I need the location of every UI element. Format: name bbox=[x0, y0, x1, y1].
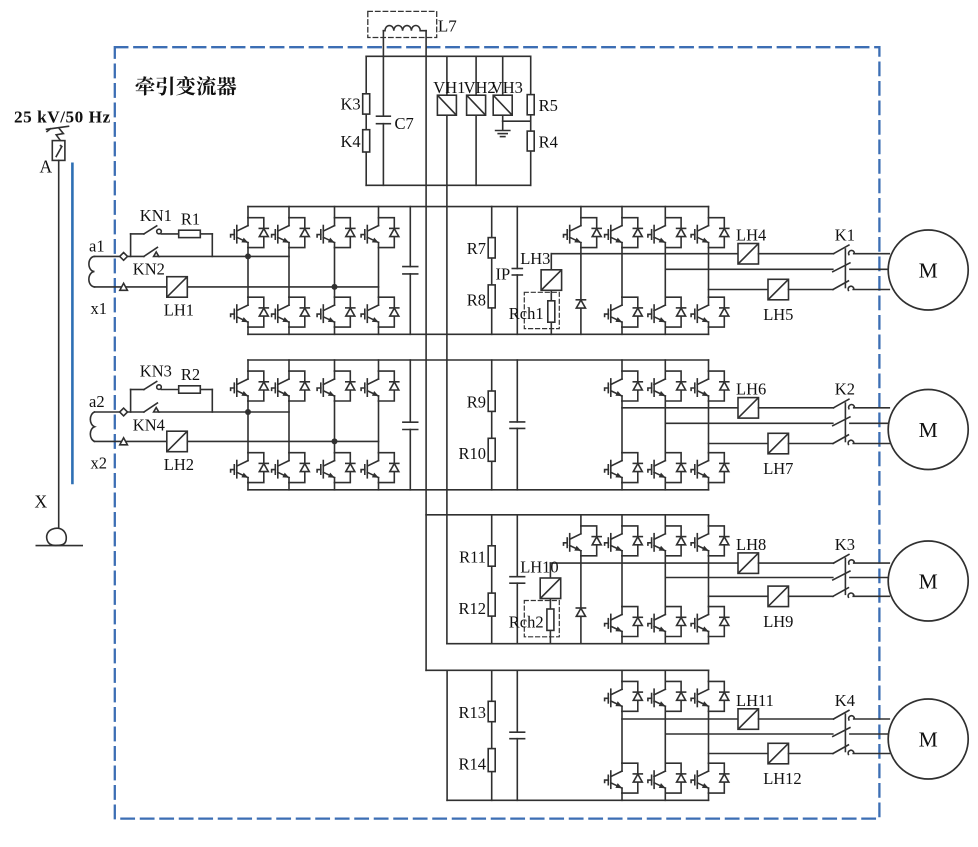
svg-text:K1: K1 bbox=[835, 226, 855, 245]
IGBT cell inverter row2 leg3 top bbox=[691, 371, 729, 401]
wire: phase A to K1 bbox=[759, 253, 834, 255]
svg-text:L7: L7 bbox=[438, 17, 457, 36]
wire: LH1 to bridge bbox=[187, 286, 378, 288]
braking resistor Rch1 bbox=[548, 301, 555, 322]
resistor R2 bbox=[179, 386, 201, 393]
wire: rectifier2 leg4 bbox=[378, 360, 380, 490]
IGBT cell inverter row1 leg3 top bbox=[691, 218, 729, 248]
IGBT cell rectifier1 leg1 top bbox=[231, 218, 269, 248]
contactor K4 phase A contact bbox=[834, 710, 855, 720]
svg-text:KN2: KN2 bbox=[133, 260, 165, 279]
svg-text:LH6: LH6 bbox=[736, 380, 766, 399]
wire: inverter row3 leg2 bbox=[664, 515, 666, 644]
current sensor LH5 bbox=[768, 279, 789, 300]
current sensor LH3 bbox=[541, 270, 562, 291]
svg-text:K4: K4 bbox=[341, 132, 361, 151]
svg-text:KN4: KN4 bbox=[133, 415, 165, 434]
arrester VH3 bbox=[493, 95, 512, 115]
contactor K4 linkage bbox=[844, 714, 846, 751]
IGBT cell inverter row1 leg2 top bbox=[648, 218, 686, 248]
wire: rectifier1 DC- rail bbox=[248, 333, 709, 335]
resistor K3 bbox=[363, 94, 370, 114]
wire: phase B bbox=[665, 422, 833, 424]
wire: rectifier1 leg2 bbox=[288, 207, 290, 335]
IGBT cell rectifier2 leg4 bottom bbox=[361, 453, 399, 483]
resistor K4 bbox=[363, 130, 370, 152]
resistor R13 bbox=[488, 701, 495, 721]
IGBT cell inverter row1 leg3 bottom bbox=[691, 297, 729, 327]
wire: row3 DC+ rail bbox=[426, 514, 708, 516]
wire: rectifier1 leg1 bbox=[247, 207, 249, 335]
wire: phase C to K1 bbox=[789, 289, 834, 291]
svg-text:LH7: LH7 bbox=[763, 459, 793, 478]
motor M row4 bbox=[888, 699, 968, 779]
contactor K1 linkage bbox=[844, 249, 846, 288]
wire: phase C to K4 bbox=[789, 753, 834, 755]
wire: rectifier1 leg3 bbox=[334, 207, 336, 335]
contactor K3 phase A contact bbox=[834, 555, 855, 565]
IGBT cell inverter row4 leg2 bottom bbox=[648, 763, 686, 793]
capacitor C4 bbox=[510, 732, 525, 739]
contactor K3 phase C contact bbox=[833, 588, 854, 598]
capacitor: rectifier1 DC link bbox=[403, 207, 418, 335]
IGBT cell inverter row1 leg1 top bbox=[605, 218, 643, 248]
IGBT cell inverter row1 leg1 bottom bbox=[605, 297, 643, 327]
current sensor LH9 bbox=[768, 586, 789, 607]
wire: inverter row1 leg2 bbox=[664, 207, 666, 335]
wire: x2 lead bbox=[95, 440, 167, 442]
resistor R8 bbox=[488, 285, 495, 308]
wire: bypass branch risers bbox=[131, 234, 213, 257]
wire: rectifier2 DC- rail bbox=[248, 489, 709, 491]
svg-text:K3: K3 bbox=[341, 95, 361, 114]
wire: inverter row4 leg1 bbox=[621, 670, 623, 800]
diode chopper row3 bbox=[576, 608, 585, 616]
IGBT cell rectifier2 leg3 top bbox=[317, 371, 355, 401]
wire: chopper leg row1 bbox=[580, 207, 582, 335]
wire: capacitor column row1 bbox=[516, 207, 518, 335]
svg-text:LH11: LH11 bbox=[736, 691, 774, 710]
wire: inverter row4 leg3 bbox=[708, 670, 710, 800]
resistor R4 bbox=[527, 131, 534, 151]
svg-text:a2: a2 bbox=[89, 392, 105, 411]
wire: filter box left edge bbox=[365, 56, 367, 185]
wire: motor leads row3 bbox=[850, 563, 890, 596]
wire: KN2 to bridge bbox=[159, 255, 289, 257]
svg-text:VH1: VH1 bbox=[433, 78, 465, 97]
wire: inverter row3 leg1 bbox=[621, 515, 623, 644]
svg-text:VH3: VH3 bbox=[491, 78, 523, 97]
wire: rectifier2 leg2 bbox=[288, 360, 290, 490]
wire: LH10 column bbox=[549, 563, 551, 644]
contactor K3 phase B contact bbox=[833, 571, 850, 580]
ground: wheel-rail earth bbox=[36, 528, 82, 545]
svg-text:R12: R12 bbox=[458, 599, 486, 618]
svg-text:K3: K3 bbox=[835, 535, 855, 554]
surge arrester A box bbox=[52, 141, 65, 161]
IGBT cell rectifier2 leg3 bottom bbox=[317, 453, 355, 483]
svg-text:LH5: LH5 bbox=[763, 305, 793, 324]
node a1-leg1 junction bbox=[245, 253, 251, 259]
resistor R9 bbox=[488, 391, 495, 411]
IGBT cell rectifier2 leg2 top bbox=[272, 371, 310, 401]
wire: inverter row1 leg1 bbox=[621, 207, 623, 335]
wire: filter box top edge bbox=[366, 55, 531, 57]
svg-text:M: M bbox=[919, 569, 938, 593]
wire: phase A / chopper link row3 bbox=[550, 562, 738, 564]
wire: R column row2 bbox=[491, 360, 493, 490]
svg-text:R5: R5 bbox=[539, 96, 558, 115]
IGBT cell inverter row3 leg1 bottom bbox=[605, 607, 643, 637]
wire: row4 left frame bbox=[446, 670, 448, 800]
wire: phase C to sensor bbox=[709, 289, 769, 291]
wire: DC bus left (from L7) bbox=[425, 31, 427, 671]
svg-text:x2: x2 bbox=[91, 454, 108, 473]
wire: capacitor column row3 bbox=[516, 515, 518, 644]
switch KN3 bbox=[144, 382, 161, 390]
contactor K1 phase C contact bbox=[833, 281, 854, 291]
wire: KN4 to bridge bbox=[159, 411, 289, 413]
wire: phase C to K3 bbox=[789, 595, 834, 597]
svg-text:x1: x1 bbox=[91, 299, 108, 318]
motor M row1 bbox=[888, 230, 968, 310]
wire: phase A / chopper link row1 bbox=[551, 253, 738, 255]
wire: phase C to sensor bbox=[709, 753, 769, 755]
IGBT cell inverter row4 leg3 bottom bbox=[691, 763, 729, 793]
current sensor LH1 bbox=[167, 277, 188, 298]
arrester VH1 bbox=[437, 95, 456, 115]
contactor K2 linkage bbox=[844, 403, 846, 441]
IGBT cell rectifier2 leg1 bottom bbox=[231, 453, 269, 483]
node a1 (diamond) bbox=[120, 253, 128, 261]
wire: L7 left lead bbox=[382, 31, 384, 57]
IGBT cell rectifier1 leg2 bottom bbox=[272, 297, 310, 327]
wire: inverter row3 leg3 bbox=[708, 515, 710, 644]
svg-text:K4: K4 bbox=[835, 691, 855, 710]
wire: inverter row1 leg3 bbox=[708, 207, 710, 335]
wire: inverter row2 leg2 bbox=[664, 360, 666, 490]
svg-text:a1: a1 bbox=[89, 236, 105, 255]
contactor K1 phase B contact bbox=[833, 263, 850, 272]
IGBT cell rectifier1 leg1 bottom bbox=[231, 297, 269, 327]
IGBT cell rectifier2 leg1 top bbox=[231, 371, 269, 401]
IGBT cell inverter row3 leg3 bottom bbox=[691, 607, 729, 637]
capacitor C3 bbox=[510, 577, 525, 584]
node x1 (triangle) bbox=[120, 283, 128, 290]
svg-text:KN1: KN1 bbox=[140, 206, 172, 225]
current sensor LH8 bbox=[738, 553, 759, 574]
wire: rectifier1 DC+ rail bbox=[248, 206, 709, 208]
svg-text:M: M bbox=[919, 418, 938, 442]
wire: phase B bbox=[665, 577, 833, 579]
wire: R column row4 bbox=[491, 670, 493, 800]
IGBT cell inverter row1 leg2 bottom bbox=[648, 297, 686, 327]
node a2-leg1 junction bbox=[245, 409, 251, 415]
IGBT cell inverter row3 leg1 top bbox=[605, 526, 643, 556]
wire: rectifier2 leg3 bbox=[334, 360, 336, 490]
svg-text:X: X bbox=[35, 492, 48, 512]
wire: rectifier2 leg1 bbox=[247, 360, 249, 490]
wire: a1 to KN2 bbox=[128, 255, 144, 257]
current sensor LH12 bbox=[768, 743, 789, 764]
resistor R7 bbox=[488, 238, 495, 258]
IGBT cell inverter row2 leg1 top bbox=[605, 371, 643, 401]
wire: a2 to KN4 bbox=[128, 411, 144, 413]
diode chopper row1 bbox=[576, 300, 585, 308]
svg-text:R7: R7 bbox=[467, 239, 486, 258]
wire: motor leads row1 bbox=[850, 254, 890, 290]
IGBT cell rectifier2 leg2 bottom bbox=[272, 453, 310, 483]
IGBT cell inverter row2 leg2 top bbox=[648, 371, 686, 401]
wire: bypass branch risers bbox=[131, 390, 213, 413]
wire: phase B bbox=[665, 733, 833, 735]
svg-text:R14: R14 bbox=[458, 754, 486, 773]
arrester VH2 bbox=[467, 95, 486, 115]
capacitor: rectifier2 DC link bbox=[403, 360, 418, 490]
wire: row4 DC+ rail bbox=[426, 669, 708, 671]
IGBT cell chopper row1 bbox=[564, 218, 602, 248]
wire: feeder down-lead bbox=[58, 160, 60, 527]
wire: filter box bottom edge bbox=[366, 184, 531, 186]
switch KN1 bbox=[144, 226, 161, 234]
inductor L7 coil bbox=[383, 25, 426, 30]
node x2-leg3 junction bbox=[332, 438, 338, 444]
svg-text:R8: R8 bbox=[467, 291, 486, 310]
IGBT cell rectifier1 leg3 top bbox=[317, 218, 355, 248]
IGBT cell inverter row3 leg2 bottom bbox=[648, 607, 686, 637]
wire: inverter row2 leg3 bbox=[708, 360, 710, 490]
IGBT cell inverter row3 leg2 top bbox=[648, 526, 686, 556]
transformer secondary winding a2/x2 bbox=[90, 412, 94, 441]
svg-text:R2: R2 bbox=[181, 365, 200, 384]
wire: a1 lead bbox=[95, 255, 120, 257]
IGBT cell rectifier1 leg3 bottom bbox=[317, 297, 355, 327]
current sensor LH2 bbox=[167, 431, 188, 452]
wire: rectifier2 DC+ rail bbox=[248, 359, 709, 361]
capacitor IP bbox=[512, 269, 522, 276]
node x2 (triangle) bbox=[120, 438, 128, 445]
braking resistor Rch2 bbox=[547, 609, 554, 630]
wire: R column row3 bbox=[491, 515, 493, 644]
motor M row2 bbox=[888, 390, 968, 470]
Rch2 dashed enclosure bbox=[524, 601, 559, 637]
ground symbol bbox=[496, 131, 510, 137]
node a2 (diamond) bbox=[120, 408, 128, 416]
resistor R14 bbox=[488, 749, 495, 772]
motor M row3 bbox=[888, 541, 968, 621]
svg-text:Rch2: Rch2 bbox=[509, 612, 544, 631]
pantograph bbox=[47, 126, 69, 141]
svg-text:R4: R4 bbox=[539, 133, 558, 152]
contactor K3 linkage bbox=[844, 558, 846, 594]
IGBT cell inverter row4 leg2 top bbox=[648, 681, 686, 711]
svg-text:LH1: LH1 bbox=[164, 301, 194, 320]
wire: VH2 column bbox=[475, 56, 477, 185]
svg-text:LH12: LH12 bbox=[763, 769, 802, 788]
wire: phase A row4 bbox=[622, 718, 738, 720]
wire: phase C to K2 bbox=[789, 443, 834, 445]
wire: VH3 column bbox=[503, 56, 531, 130]
IGBT cell inverter row4 leg1 top bbox=[605, 681, 643, 711]
wire: motor leads row2 bbox=[850, 408, 890, 444]
svg-text:K2: K2 bbox=[835, 380, 855, 399]
contactor K2 phase A contact bbox=[834, 399, 855, 409]
contactor K4 phase C contact bbox=[833, 745, 854, 755]
IGBT cell inverter row4 leg1 bottom bbox=[605, 763, 643, 793]
svg-text:LH9: LH9 bbox=[763, 612, 793, 631]
transformer secondary winding a1/x1 bbox=[89, 256, 95, 287]
IGBT cell inverter row3 leg3 top bbox=[691, 526, 729, 556]
svg-text:C7: C7 bbox=[395, 114, 414, 133]
text 牵引变流器 (traction converter) bbox=[136, 76, 237, 95]
svg-text:R9: R9 bbox=[467, 393, 486, 412]
svg-text:25 kV/50 Hz: 25 kV/50 Hz bbox=[14, 108, 111, 127]
L7 dashed enclosure bbox=[368, 11, 437, 37]
svg-text:LH2: LH2 bbox=[164, 455, 194, 474]
svg-text:LH10: LH10 bbox=[520, 557, 559, 576]
capacitor C2 bbox=[510, 422, 525, 429]
contactor K1 phase A contact bbox=[834, 245, 855, 255]
capacitor C7 bbox=[377, 116, 391, 124]
wire: x1 lead bbox=[95, 286, 167, 288]
contactor K2 phase C contact bbox=[833, 435, 854, 445]
IGBT cell rectifier1 leg4 top bbox=[361, 218, 399, 248]
IGBT cell rectifier2 leg4 top bbox=[361, 371, 399, 401]
IGBT cell inverter row2 leg3 bottom bbox=[691, 453, 729, 483]
wire: phase A to K4 bbox=[759, 718, 834, 720]
svg-text:R11: R11 bbox=[459, 547, 486, 566]
wire: phase A to K3 bbox=[759, 562, 834, 564]
wire: filter box right edge bbox=[530, 56, 532, 185]
resistor R1 bbox=[179, 230, 201, 237]
wire: phase A row2 bbox=[622, 407, 738, 409]
svg-text:IP: IP bbox=[496, 265, 511, 284]
resistor R5 bbox=[527, 95, 534, 115]
wire: rectifier1 leg4 bbox=[378, 207, 380, 335]
wire: row3 DC- rail bbox=[447, 643, 709, 645]
wire: phase A to K2 bbox=[759, 407, 834, 409]
svg-text:R13: R13 bbox=[458, 703, 486, 722]
IGBT cell inverter row4 leg3 top bbox=[691, 681, 729, 711]
svg-text:LH8: LH8 bbox=[736, 535, 766, 554]
wire: row4 DC- rail bbox=[447, 799, 708, 801]
svg-text:LH4: LH4 bbox=[736, 226, 766, 245]
wire: capacitor column row2 bbox=[516, 360, 518, 490]
switch KN2 bbox=[144, 247, 159, 256]
IGBT cell inverter row2 leg2 bottom bbox=[648, 453, 686, 483]
wire: inverter row2 leg1 bbox=[621, 360, 623, 490]
wire: chopper leg row3 bbox=[580, 515, 582, 644]
resistor R10 bbox=[488, 438, 495, 461]
transformer primary winding (blue bar) bbox=[71, 164, 74, 483]
svg-text:A: A bbox=[40, 156, 53, 176]
wire: C7 column bbox=[382, 56, 384, 185]
svg-text:M: M bbox=[919, 258, 938, 282]
current sensor LH7 bbox=[768, 433, 789, 454]
wire: phase C to sensor bbox=[709, 595, 769, 597]
dashed boundary box 牵引变流器 bbox=[115, 47, 880, 818]
wire: LH2 to bridge bbox=[187, 440, 378, 442]
wire: capacitor column row4 bbox=[516, 670, 518, 800]
Rch1 dashed enclosure bbox=[524, 292, 559, 328]
contactor K2 phase B contact bbox=[833, 417, 850, 426]
resistor R11 bbox=[488, 546, 495, 566]
svg-text:M: M bbox=[919, 727, 938, 751]
contactor K4 phase B contact bbox=[833, 728, 850, 737]
current sensor LH4 bbox=[738, 244, 759, 265]
svg-text:LH3: LH3 bbox=[520, 249, 550, 268]
node x1-leg3 junction bbox=[332, 284, 338, 290]
switch KN4 bbox=[144, 403, 159, 412]
wire: phase C to sensor bbox=[709, 443, 769, 445]
wire: motor leads row4 bbox=[850, 719, 890, 754]
current sensor LH11 bbox=[738, 709, 759, 730]
wire: a2 lead bbox=[95, 411, 120, 413]
wire: phase B bbox=[665, 268, 833, 270]
resistor R12 bbox=[488, 593, 495, 616]
svg-text:Rch1: Rch1 bbox=[509, 304, 544, 323]
wire: inverter row4 leg2 bbox=[664, 670, 666, 800]
current sensor LH10 bbox=[540, 578, 561, 599]
wire: DC bus right bbox=[446, 56, 448, 643]
current sensor LH6 bbox=[738, 398, 759, 419]
wire: R column row1 bbox=[491, 207, 493, 335]
svg-text:R1: R1 bbox=[181, 210, 200, 229]
svg-text:KN3: KN3 bbox=[140, 362, 172, 381]
IGBT cell rectifier1 leg4 bottom bbox=[361, 297, 399, 327]
svg-text:R10: R10 bbox=[458, 444, 486, 463]
wire: LH3 column bbox=[550, 254, 552, 335]
IGBT cell inverter row2 leg1 bottom bbox=[605, 453, 643, 483]
IGBT cell chopper row3 bbox=[564, 526, 602, 556]
IGBT cell rectifier1 leg2 top bbox=[272, 218, 310, 248]
